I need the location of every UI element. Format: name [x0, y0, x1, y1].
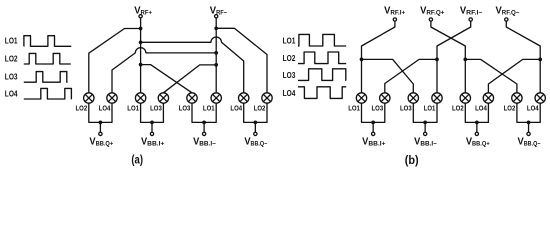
terminal V_RF.I+ terminal — [393, 18, 396, 21]
svg-text:LO1: LO1 — [127, 105, 139, 112]
junction pair 1b mid — [371, 121, 375, 125]
wire V_RF+ vertical to mixer LO1 left — [140, 18, 142, 93]
svg-text:LO3: LO3 — [283, 70, 296, 80]
wire stub to V_BB.Q+ terminal — [99, 122, 101, 132]
wire V_RF,Q- down-right to mixer 8 (LO4) — [506, 21, 540, 93]
wire stub to V_BB.Q+ terminal — [476, 122, 478, 132]
wire baseband join pair 3b — [465, 103, 488, 122]
terminal V_RF.I&#8722; terminal — [469, 18, 472, 21]
waveform LO2 50% duty trace (b) — [298, 52, 346, 64]
mixer M4a (LO3) — [158, 93, 168, 103]
terminal V_BB.Q&#8722; (b) — [527, 132, 530, 135]
waveform LO3 50% duty trace (b) — [298, 69, 346, 81]
wire stub to V_BB.I&#8722; terminal — [424, 122, 426, 132]
terminal V_RF- — [215, 15, 218, 18]
wire stub to V_BB.Q&#8722; terminal — [528, 122, 530, 132]
wire V_RF- diagonal to mixer 4 (LO3) — [163, 65, 216, 93]
svg-text:LO4: LO4 — [99, 105, 111, 112]
terminal V_RF.Q&#8722; terminal — [505, 18, 508, 21]
wire V_RF+ rail with hop over V_RF- to mixer 7 (LO4) — [141, 37, 244, 93]
svg-text:LO1: LO1 — [283, 35, 296, 45]
waveform LO3 25% duty trace (a) — [24, 72, 68, 83]
svg-text:LO2: LO2 — [76, 105, 88, 112]
junction pair 3a mid — [202, 121, 206, 125]
junction I+ node — [360, 58, 364, 62]
mixer M1b (LO1) — [356, 93, 366, 103]
junction V_RF- upper — [214, 26, 218, 30]
svg-text:LO2: LO2 — [283, 53, 296, 63]
svg-text:LO2: LO2 — [452, 105, 464, 112]
junction V_RF+ lower — [139, 63, 143, 67]
terminal V_BB.Q&#8722; (a) — [254, 132, 257, 135]
waveform LO4 25% duty trace (a) — [24, 88, 72, 99]
svg-text:(b): (b) — [405, 155, 419, 167]
waveform LO2 25% duty trace (a) — [24, 53, 71, 64]
wire baseband join pair 2b — [413, 103, 437, 122]
junction pair 1a mid — [99, 121, 103, 125]
svg-text:LO3: LO3 — [5, 72, 18, 82]
svg-text:LO1: LO1 — [348, 105, 360, 112]
wire baseband join pair 4a — [244, 103, 267, 122]
junction pair 3b mid — [475, 121, 479, 125]
wire V_RF- vertical to mixer LO1 right — [215, 18, 217, 93]
wire I+ branch crossing to mixer 3 (LO3) — [362, 59, 414, 92]
junction pair 4b mid — [527, 121, 531, 125]
junction V_RF+ upper — [139, 27, 143, 31]
terminal V_BB.I&#8722; (a) — [202, 132, 205, 135]
mixer M6b (LO4) — [483, 93, 493, 103]
mixer M2a (LO4) — [107, 93, 117, 103]
svg-text:LO4: LO4 — [230, 105, 242, 112]
wire baseband join pair 2a — [141, 103, 164, 122]
mixer M2b (LO3) — [380, 93, 390, 103]
wire stub to V_BB.I&#8722; terminal — [203, 122, 205, 132]
terminal V_BB.Q+ (b) — [475, 132, 478, 135]
terminal V_BB.I&#8722; (b) — [424, 132, 427, 135]
junction pair 4a mid — [254, 121, 258, 125]
junction I- node — [435, 58, 439, 62]
terminal V_BB.Q+ (a) — [99, 132, 102, 135]
terminal V_RF+ — [139, 15, 142, 18]
wire V_RF- rail with hop over V_RF+ to mixer 2 (LO4) — [112, 48, 216, 93]
terminal V_RF.Q+ terminal — [429, 18, 432, 21]
svg-text:LO1: LO1 — [5, 36, 18, 46]
wire baseband join pair 4b — [517, 103, 540, 122]
mixer M7b (LO2) — [512, 93, 522, 103]
svg-text:LO2: LO2 — [504, 105, 516, 112]
junction pair 2a mid — [150, 121, 154, 125]
mixer M8a (LO2) — [262, 93, 272, 103]
svg-text:LO4: LO4 — [527, 105, 539, 112]
mixer M6a (LO1) — [211, 93, 221, 103]
svg-text:LO2: LO2 — [254, 105, 266, 112]
svg-text:LO3: LO3 — [372, 105, 384, 112]
svg-text:(a): (a) — [131, 154, 143, 166]
wire stub to V_BB.I+ terminal — [372, 122, 374, 132]
wire baseband join pair 3a — [192, 103, 216, 122]
mixer M3b (LO3) — [408, 93, 418, 103]
wire V_RF- to mixer 8 (LO2) — [216, 28, 267, 93]
wire Q- branch crossing to mixer 6 (LO4) — [488, 59, 540, 92]
wire V_RF,I+ down-left to mixer 1 (LO1) — [362, 21, 395, 93]
waveform LO4 50% duty trace (b) — [298, 87, 346, 99]
svg-text:LO3: LO3 — [400, 105, 412, 112]
svg-text:LO4: LO4 — [475, 105, 487, 112]
waveform LO1 25% duty trace (a) — [24, 36, 72, 47]
wire V_RF,I- down-left to mixer 4 (LO1) — [437, 21, 471, 93]
terminal V_BB.I+ (b) — [372, 132, 375, 135]
mixer M3a (LO1) — [135, 93, 145, 103]
junction pair 2b mid — [423, 121, 427, 125]
waveform LO1 50% duty trace (b) — [298, 34, 346, 46]
svg-text:LO4: LO4 — [5, 88, 18, 98]
wire V_RF,Q+ down-right to mixer 5 (LO2) — [431, 21, 465, 93]
wire V_RF+ to mixer 1 (LO2) — [89, 29, 141, 93]
svg-text:LO3: LO3 — [179, 105, 191, 112]
wire I- branch crossing to mixer 2 (LO3) — [385, 59, 437, 92]
wire Q+ branch crossing to mixer 7 (LO2) — [465, 59, 517, 92]
junction V_RF- rail — [214, 51, 218, 55]
svg-text:LO1: LO1 — [424, 105, 436, 112]
junction Q- node — [538, 58, 542, 62]
junction Q+ node — [463, 58, 467, 62]
mixer M4b (LO1) — [432, 93, 442, 103]
mixer M5b (LO2) — [460, 93, 470, 103]
terminal V_BB.I+ (a) — [150, 132, 153, 135]
wire V_RF+ diagonal to mixer 5 (LO3) — [141, 65, 192, 93]
junction V_RF+ rail — [139, 40, 143, 44]
mixer M5a (LO3) — [187, 93, 197, 103]
junction V_RF- lower — [214, 63, 218, 67]
mixer M7a (LO4) — [239, 93, 249, 103]
svg-text:LO2: LO2 — [5, 53, 18, 63]
wire baseband join pair 1a — [89, 103, 112, 122]
wire baseband join pair 1b — [362, 103, 385, 122]
mixer M8b (LO4) — [535, 93, 545, 103]
mixer M1a (LO2) — [84, 93, 94, 103]
svg-text:LO4: LO4 — [283, 88, 296, 98]
svg-text:LO3: LO3 — [150, 105, 162, 112]
wire stub to V_BB.Q&#8722; terminal — [254, 122, 256, 132]
svg-text:LO1: LO1 — [203, 105, 215, 112]
wire stub to V_BB.I+ terminal — [151, 122, 153, 132]
